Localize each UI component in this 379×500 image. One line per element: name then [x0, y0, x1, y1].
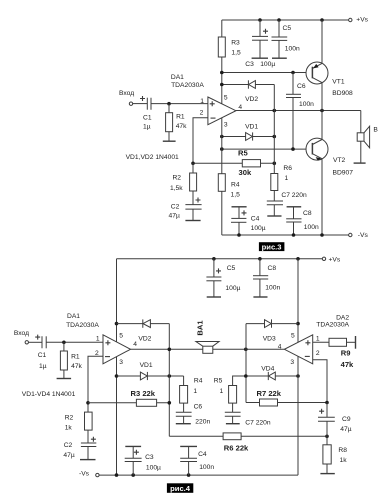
svg-text:R3: R3 — [231, 39, 240, 46]
svg-text:+Vs: +Vs — [356, 16, 368, 23]
svg-text:VD3: VD3 — [263, 335, 276, 342]
terminal -Vs (fig.4) — [79, 471, 99, 478]
capacitor C4 100n (fig.4) — [180, 447, 214, 476]
svg-text:47k: 47k — [176, 123, 187, 130]
svg-text:R9: R9 — [341, 349, 351, 358]
svg-text:1µ: 1µ — [39, 363, 47, 370]
svg-text:1: 1 — [96, 335, 100, 342]
node dot C5/rail — [277, 18, 281, 22]
node dot C8/rail — [292, 233, 296, 237]
svg-text:R8: R8 — [338, 447, 347, 454]
svg-text:Вход: Вход — [14, 330, 29, 337]
svg-text:2: 2 — [316, 350, 320, 357]
svg-text:100µ: 100µ — [251, 225, 266, 232]
svg-text:C3: C3 — [245, 61, 254, 68]
svg-text:R1: R1 — [176, 113, 185, 120]
capacitor C4 100u — [231, 207, 266, 235]
svg-text:TDA2030A: TDA2030A — [66, 322, 99, 329]
svg-text:1,5: 1,5 — [231, 49, 241, 56]
svg-text:VD2: VD2 — [138, 335, 151, 342]
resistor R6 22k (fig.4, bold label) — [223, 433, 249, 453]
capacitor C1 1u (fig.3) — [140, 96, 152, 131]
node dot VD4 row left — [244, 374, 248, 378]
wire R7 row — [246, 402, 327, 404]
wire -Vs rail (fig.4) — [99, 474, 298, 476]
capacitor C8 100n (fig.4) — [253, 259, 280, 297]
wire VT1 emitter — [321, 20, 323, 63]
svg-text:TDA2030A: TDA2030A — [171, 82, 204, 89]
ground bar C7b — [226, 423, 240, 425]
op-amp DA1 TDA2030A (fig.4) — [66, 313, 137, 366]
svg-text:TDA2030A: TDA2030A — [316, 322, 349, 329]
op-amp DA2 TDA2030A — [278, 314, 350, 366]
wire VD1 row + R4 branch — [117, 375, 184, 377]
node dot R5 row left — [191, 162, 195, 166]
svg-text:100µ: 100µ — [146, 465, 161, 472]
ground bar C3 — [252, 57, 268, 59]
svg-text:C8: C8 — [303, 210, 312, 217]
wire R3 row (fig.4) — [88, 402, 169, 404]
svg-text:R6: R6 — [283, 165, 292, 172]
node dot R7 row/C9 column — [325, 401, 329, 405]
capacitor C3 100u — [245, 20, 275, 68]
svg-text:47k: 47k — [71, 363, 82, 370]
svg-text:B: B — [373, 127, 378, 134]
svg-text:VT1: VT1 — [332, 78, 345, 85]
ground bar R8 — [320, 473, 334, 475]
node dot output column/VD1 row — [168, 374, 172, 378]
svg-text:47µ: 47µ — [63, 452, 74, 459]
svg-text:VD1-VD4 1N4001: VD1-VD4 1N4001 — [22, 391, 76, 398]
node dot C6 bottom — [291, 147, 295, 151]
svg-text:DA2: DA2 — [336, 314, 349, 321]
svg-text:2: 2 — [200, 110, 204, 117]
speaker B — [357, 111, 378, 164]
node dot pin3 column/base row — [220, 147, 224, 151]
svg-text:100n: 100n — [265, 285, 280, 292]
svg-text:100n: 100n — [299, 101, 314, 108]
svg-text:R1: R1 — [71, 354, 80, 361]
resistor R4 1 (fig.4) — [180, 376, 203, 412]
label VD1,VD2 1N4001 — [126, 154, 179, 161]
transistor VT1 BD908 — [306, 62, 353, 97]
diode VD1 (fig.4) — [140, 362, 153, 380]
wire DA1 pin2 feedback — [88, 356, 103, 403]
label fig.3 — [259, 242, 285, 251]
svg-text:C9: C9 — [342, 416, 351, 423]
ground bar C5b — [207, 296, 221, 298]
svg-text:R2: R2 — [172, 175, 181, 182]
svg-text:R4: R4 — [231, 182, 240, 189]
wire DA1 output column — [168, 324, 170, 437]
ground bar speaker B — [354, 162, 366, 164]
wire input to C1b — [29, 341, 42, 343]
wire VT1 collector — [321, 83, 323, 111]
ground bar C5 — [272, 57, 287, 59]
wire DA1 pin3 column — [116, 357, 118, 475]
svg-text:C3: C3 — [145, 454, 154, 461]
capacitor C7 220n (fig.4) — [225, 412, 271, 426]
capacitor C2 47u (fig.4) — [63, 437, 96, 460]
capacitor C3 100u (fig.4) — [125, 447, 161, 476]
node dot VD1 right — [273, 135, 277, 139]
wire -Vs rail (fig.3) — [222, 234, 349, 236]
wire output row right — [213, 348, 285, 350]
svg-text:+Vs: +Vs — [329, 256, 341, 263]
svg-text:220n: 220n — [195, 419, 210, 426]
resistor R8 1k — [323, 436, 347, 473]
svg-text:рис.3: рис.3 — [262, 243, 282, 252]
svg-text:VD2: VD2 — [245, 96, 258, 103]
node dot pin2b/R3 row — [86, 401, 90, 405]
wire +Vs rail (fig.3) — [222, 19, 349, 21]
terminal input Vhod (fig.3) — [119, 90, 134, 105]
wire VD1 row — [222, 136, 274, 138]
svg-text:100n: 100n — [199, 464, 214, 471]
ground bar C4 — [232, 206, 247, 208]
wire DA2 pin2 feedback — [313, 360, 327, 403]
transistor VT2 BD907 — [306, 138, 353, 177]
svg-text:C5: C5 — [283, 25, 292, 32]
node dot pin3b/VD1 row — [115, 374, 119, 378]
node dot C4/rail — [237, 233, 241, 237]
wire R5 row — [193, 162, 274, 164]
node dot R6 row/C9 column — [325, 435, 329, 439]
wire VD2 row (fig.4) — [117, 323, 170, 325]
svg-text:1: 1 — [285, 175, 289, 182]
wire C1 to pin1 — [151, 103, 208, 105]
svg-text:1: 1 — [316, 336, 320, 343]
diode VD4 — [261, 365, 275, 380]
node dot VT2 emitter/rail — [320, 233, 324, 237]
wire C1b to pin1 — [46, 341, 103, 343]
label fig.4 — [167, 483, 193, 493]
svg-text:R6 22k: R6 22k — [224, 443, 249, 452]
svg-text:R5: R5 — [238, 149, 248, 158]
svg-text:VD1,VD2 1N4001: VD1,VD2 1N4001 — [126, 154, 179, 161]
node dot C4b/rail — [187, 473, 191, 477]
svg-text:100µ: 100µ — [260, 61, 275, 68]
resistor R9 47k (bold label) — [313, 338, 356, 369]
svg-text:-Vs: -Vs — [358, 232, 369, 239]
svg-text:5: 5 — [224, 94, 228, 101]
wire R6 row — [169, 435, 327, 437]
wire VT2 collector — [321, 111, 323, 140]
resistor R2 1k (fig.4) — [65, 403, 92, 443]
svg-text:4: 4 — [278, 344, 282, 351]
svg-text:100µ: 100µ — [225, 285, 240, 292]
svg-text:C7 220n: C7 220n — [245, 419, 271, 426]
ground bar C7 — [267, 215, 281, 217]
svg-text:C6: C6 — [297, 83, 306, 90]
node dot C3b/rail — [131, 473, 135, 477]
svg-text:47µ: 47µ — [169, 213, 180, 220]
wire output row — [236, 110, 361, 112]
svg-text:VD4: VD4 — [261, 365, 274, 372]
svg-text:R5: R5 — [214, 378, 223, 385]
svg-text:3: 3 — [224, 121, 228, 128]
svg-text:3: 3 — [119, 359, 123, 366]
wire DA2 output column — [245, 324, 247, 403]
wire DA2 pin5 column — [297, 259, 299, 343]
svg-text:C1: C1 — [143, 114, 152, 121]
svg-text:1,5: 1,5 — [231, 192, 241, 199]
ground bar C3b — [125, 445, 141, 447]
svg-text:C2: C2 — [171, 203, 180, 210]
wire R5 branch — [233, 376, 246, 386]
resistor R7 22k (bold label) — [257, 389, 282, 406]
svg-text:5: 5 — [119, 332, 123, 339]
svg-text:1k: 1k — [340, 457, 348, 464]
wire pin3 column / R4 column — [221, 118, 223, 235]
svg-text:1µ: 1µ — [143, 124, 151, 131]
svg-text:рис.4: рис.4 — [170, 484, 191, 493]
node dot VT1 emitter/rail — [320, 18, 324, 22]
wire +Vs rail (fig.4) — [117, 258, 323, 260]
wire VD2 row — [222, 84, 274, 86]
wire pin2 feedback — [193, 118, 208, 164]
diode VD2 (fig.4) — [138, 319, 151, 342]
terminal -Vs (fig.3) — [349, 232, 369, 239]
capacitor C6 220n (fig.4) — [176, 404, 211, 426]
svg-text:1: 1 — [193, 388, 197, 395]
svg-text:C1: C1 — [38, 352, 47, 359]
node dot R5 row right — [273, 162, 277, 166]
wire DA2 pin3 column — [297, 356, 299, 475]
ground bar R9 (vertical) — [355, 336, 357, 349]
svg-text:R3 22k: R3 22k — [131, 389, 156, 398]
svg-text:5: 5 — [291, 332, 295, 339]
terminal +Vs (fig.4) — [322, 256, 341, 263]
svg-text:C4: C4 — [198, 451, 207, 458]
wire VT2 emitter — [321, 159, 323, 235]
node dot VD1 left — [220, 135, 224, 139]
node dot R3 row/output column — [168, 401, 172, 405]
wire input to C1 — [133, 103, 148, 105]
resistor R5 1 (fig.4) — [214, 378, 237, 413]
terminal +Vs (fig.3) — [349, 16, 369, 23]
svg-text:R2: R2 — [65, 415, 74, 422]
svg-text:C6: C6 — [194, 404, 203, 411]
node dot C6/node A — [291, 71, 295, 75]
svg-text:R4: R4 — [194, 378, 203, 385]
capacitor C6 100n — [286, 73, 314, 150]
svg-text:C5: C5 — [227, 265, 236, 272]
wire VD4 row — [233, 375, 298, 377]
svg-text:VD1: VD1 — [245, 124, 258, 131]
node dot R1b — [62, 341, 66, 345]
wire DA1 pin5 column — [116, 259, 118, 342]
svg-text:VD1: VD1 — [140, 362, 153, 369]
node dot C8b/rail — [258, 257, 262, 261]
ground bar C4b — [180, 445, 197, 447]
svg-text:30k: 30k — [239, 168, 252, 177]
svg-text:R7 22k: R7 22k — [257, 389, 282, 398]
ground bar C2 — [185, 220, 200, 222]
svg-text:1: 1 — [220, 388, 224, 395]
node dot R1 — [167, 102, 171, 106]
node dot pin5/VD2 row — [220, 83, 224, 87]
ground bar C8 — [287, 206, 302, 208]
node dot output row/DA2 column — [244, 348, 248, 352]
resistor R1 47k (fig.3) — [166, 104, 188, 142]
svg-text:47µ: 47µ — [340, 426, 351, 433]
node dot output column — [273, 109, 277, 113]
node dot C5b/rail — [212, 257, 216, 261]
capacitor C8 100n (fig.3) — [286, 207, 319, 235]
resistor R6 1 — [271, 165, 292, 201]
ground bar R1 — [163, 140, 176, 142]
wire output column — [273, 85, 275, 174]
node dot VD3 row — [296, 322, 300, 326]
resistor R1 47k (fig.4) — [60, 342, 82, 378]
node dot R3/node A — [220, 71, 224, 75]
wire node A row (R3 bottom to VT1 base) — [222, 72, 312, 74]
capacitor C1 1u (fig.4) — [35, 335, 47, 371]
node dot output row/column — [168, 348, 172, 352]
svg-text:C2: C2 — [64, 442, 73, 449]
label VD1-VD4 1N4001 — [22, 391, 76, 398]
svg-text:4: 4 — [133, 341, 137, 348]
ground bar R1b — [57, 378, 72, 380]
diode VD2 — [245, 80, 258, 103]
terminal input Vhod (fig.4) — [14, 330, 29, 344]
ground bar C2b — [80, 459, 96, 461]
node dot C3/rail — [258, 18, 262, 22]
resistor R4 1,5 — [218, 174, 240, 199]
resistor R3 22k (fig.4, bold label) — [131, 389, 157, 406]
svg-text:3: 3 — [290, 359, 294, 366]
svg-text:100n: 100n — [285, 45, 300, 52]
svg-text:BD908: BD908 — [332, 90, 353, 97]
node dot DA2 pin5/rail — [296, 257, 300, 261]
resistor R2 1,5k (fig.3) — [170, 163, 197, 204]
wire R3 column — [221, 20, 223, 104]
svg-text:47k: 47k — [341, 360, 354, 369]
diode VD1 — [245, 124, 258, 141]
node dot pin3b/rail — [115, 473, 119, 477]
node dot VD4 row right — [296, 374, 300, 378]
svg-text:C4: C4 — [251, 215, 260, 222]
node dot VT collectors — [320, 109, 324, 113]
svg-text:C7 220n: C7 220n — [281, 192, 307, 199]
capacitor C5 100n — [272, 20, 300, 58]
svg-text:-Vs: -Vs — [79, 471, 90, 478]
capacitor C2 47u (fig.3) — [169, 198, 202, 221]
resistor R5 30k (bold) — [238, 149, 261, 178]
svg-text:1,5k: 1,5k — [170, 185, 183, 192]
svg-text:1k: 1k — [65, 425, 73, 432]
svg-text:Вход: Вход — [119, 90, 134, 97]
svg-text:VT2: VT2 — [333, 157, 346, 164]
svg-text:DA1: DA1 — [171, 74, 184, 81]
capacitor C5 100u (fig.4) — [206, 259, 240, 297]
diode VD3 — [263, 319, 276, 342]
wire output row left — [131, 348, 203, 350]
svg-text:100n: 100n — [304, 224, 319, 231]
ground bar C6b — [176, 423, 191, 425]
svg-text:C8: C8 — [268, 265, 277, 272]
op-amp DA1 TDA2030A (fig.3) — [171, 74, 243, 129]
capacitor C7 220n — [267, 192, 307, 216]
capacitor C9 47u — [318, 403, 352, 437]
svg-text:BA1: BA1 — [195, 320, 204, 336]
speaker BA1 — [195, 320, 219, 354]
wire base row to VT2 — [222, 148, 312, 150]
node dot VD2b row — [115, 322, 119, 326]
wire VD3 row — [246, 323, 298, 325]
resistor R3 1,5 — [218, 37, 241, 57]
ground bar C8b — [253, 296, 267, 298]
svg-text:BD907: BD907 — [333, 170, 354, 177]
svg-text:DA1: DA1 — [67, 313, 80, 320]
